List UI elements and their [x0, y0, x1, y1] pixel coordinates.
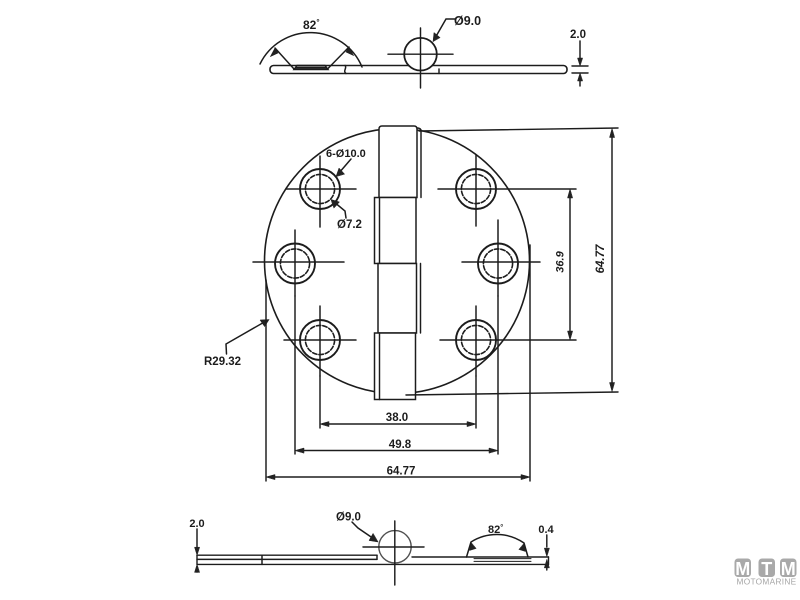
- arrowhead left of 82 arc: [271, 48, 279, 57]
- logo MTM: [735, 559, 797, 587]
- svg-text:38.0: 38.0: [386, 412, 408, 424]
- main circle: [265, 129, 530, 394]
- bottom view folded leaf dome: [467, 535, 532, 562]
- knuckle segment 4: [375, 333, 416, 400]
- svg-text:MOTOMARINE: MOTOMARINE: [736, 576, 796, 586]
- top view plate joggle: [345, 66, 346, 74]
- svg-text:49.8: 49.8: [389, 439, 412, 451]
- top view folded leaf sliver: [294, 66, 328, 70]
- svg-text:82°: 82°: [303, 18, 320, 32]
- svg-text:64.77: 64.77: [595, 244, 607, 273]
- top view plate: [270, 66, 567, 74]
- top view barrel crosshair: [388, 28, 453, 88]
- leader dia7.2: [334, 202, 347, 219]
- svg-text:Ø9.0: Ø9.0: [454, 14, 481, 28]
- hole mid-right: [462, 220, 540, 296]
- dim 64.77 bottom: [270, 476, 526, 478]
- knuckle segment 1: [379, 126, 421, 198]
- svg-text:Ø7.2: Ø7.2: [337, 219, 362, 231]
- arrowhead dia9.0 top: [433, 33, 440, 42]
- hole top-left: [286, 156, 356, 227]
- dim 64.77 right: [406, 128, 618, 395]
- dim 2.0 top right: [572, 41, 588, 86]
- svg-text:36.9: 36.9: [555, 250, 567, 272]
- hole bottom-right: [440, 306, 576, 376]
- knuckle segment 3: [378, 264, 421, 334]
- svg-text:2.0: 2.0: [570, 29, 586, 41]
- leader R29.32: [226, 321, 267, 355]
- svg-text:Ø9.0: Ø9.0: [336, 512, 361, 524]
- top view fold line right: [328, 47, 350, 69]
- leader for dia 9.0 top: [435, 19, 456, 39]
- hole mid-left: [253, 230, 344, 296]
- svg-text:R29.32: R29.32: [204, 356, 241, 368]
- arrowheads 2.0 top: [578, 58, 583, 66]
- top view 82 deg arc: [260, 33, 362, 67]
- dim 38.0: [324, 423, 472, 425]
- svg-text:0.4: 0.4: [538, 524, 554, 536]
- knuckle segment 2: [375, 198, 417, 264]
- hole bottom-left: [284, 306, 356, 376]
- arrowhead right of 82 arc: [346, 47, 354, 56]
- bottom view plate: [197, 555, 549, 564]
- dim 36.9 right: [569, 193, 571, 336]
- bottom view barrel circle: [379, 531, 411, 563]
- top view fold line left: [275, 48, 294, 69]
- bottom view barrel crosshair: [363, 521, 424, 585]
- svg-text:6-Ø10.0: 6-Ø10.0: [326, 148, 366, 160]
- svg-text:64.77: 64.77: [387, 466, 416, 478]
- top view barrel circle: [404, 38, 437, 71]
- hole top-right: [438, 155, 576, 226]
- extension lines bottom: [266, 245, 530, 481]
- dim 0.4 bottom right: [546, 535, 548, 570]
- dim 49.8: [299, 450, 494, 452]
- leader dia9.0 bottom: [352, 522, 376, 540]
- dim 2.0 bottom left: [196, 529, 198, 572]
- svg-text:2.0: 2.0: [189, 518, 204, 530]
- leader 6-dia10.0: [339, 159, 352, 174]
